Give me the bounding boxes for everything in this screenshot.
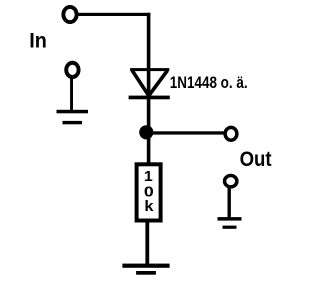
wire from junction down to resistor [147, 138, 151, 164]
ground (left) [57, 110, 89, 125]
terminal (right, open circle above right ground) [225, 176, 237, 187]
svg-text:1N1448 o. ä.: 1N1448 o. ä. [170, 74, 248, 92]
wire from right terminal to right ground [228, 187, 231, 218]
triangle left side [132, 71, 148, 96]
svg-text:k: k [144, 199, 154, 215]
ground (right, under Out) [218, 217, 242, 229]
wire from In terminal to corner (horizontal) [78, 13, 151, 16]
anode bar of diode [130, 68, 169, 71]
junction node (filled dot) [139, 125, 153, 139]
ground short bar [136, 271, 156, 275]
ground (bottom, under resistor) [122, 264, 169, 275]
ground long bar [57, 110, 89, 114]
ground short bar [63, 121, 83, 124]
ground long bar [122, 264, 169, 268]
svg-text:1: 1 [144, 169, 153, 185]
terminal (left, open circle above left ground) [66, 63, 78, 77]
wire vertical from corner through diode to junction [147, 13, 151, 139]
diode D1 (cathode down) [129, 68, 170, 99]
wire from left terminal to left ground [70, 76, 73, 112]
svg-text:Out: Out [240, 147, 272, 171]
ground short bar [223, 226, 237, 229]
ground long bar [218, 217, 242, 221]
svg-text:In: In [29, 29, 47, 53]
terminal Out (open circle) [225, 127, 237, 140]
cathode bar of diode [129, 96, 170, 100]
triangle right side [149, 71, 168, 96]
terminal In (open circle) [63, 7, 76, 22]
wire from resistor to ground [145, 221, 149, 265]
resistor R1 (box) [137, 164, 161, 220]
wire from junction to Out terminal (horizontal) [151, 131, 225, 134]
